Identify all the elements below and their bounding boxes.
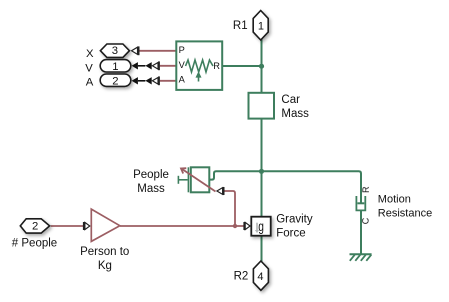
gain Person to Kg (triangle) <box>91 209 120 241</box>
label Gravity Force <box>276 214 313 240</box>
wire People Mass to node B to Motion Resistance <box>210 171 362 203</box>
label A <box>86 77 94 89</box>
converter arrows at port V <box>132 61 159 70</box>
label Car Mass <box>281 94 309 120</box>
PS arrowhead at Gravity Force input <box>244 222 250 230</box>
wire Car Mass to Gravity Force <box>261 119 263 218</box>
PS arrowhead at port X <box>132 46 139 55</box>
Car Mass block <box>249 93 275 119</box>
wire branch node C to People Mass signal port <box>224 191 235 226</box>
port # People (inport 2, hexagon) <box>20 219 49 233</box>
svg-text:4: 4 <box>257 271 263 283</box>
Gravity Force block <box>251 217 270 236</box>
port X (outport 3, hexagon) <box>100 44 129 57</box>
wire sensor P output to port X <box>140 50 177 52</box>
wire R1 to Car Mass (conserving, vertical main line) <box>261 40 263 94</box>
svg-text:2: 2 <box>112 76 118 88</box>
PS arrowhead at gain input <box>84 222 90 230</box>
svg-text:# People: # People <box>12 238 57 250</box>
svg-text:2: 2 <box>32 221 38 233</box>
svg-text:1: 1 <box>258 21 264 33</box>
wire Gravity Force to R2 <box>261 236 263 263</box>
wire # People port to gain input (physical signal) <box>51 225 84 227</box>
node C junction dot (signal branch) <box>233 224 237 228</box>
svg-text:C: C <box>361 217 371 224</box>
svg-text:Person to: Person to <box>80 246 129 258</box>
wire damper to ground <box>360 210 362 254</box>
svg-text:g: g <box>258 219 264 235</box>
converter arrows at port A <box>132 76 159 85</box>
wire gain output to Gravity Force input <box>120 225 244 227</box>
label Person to Kg <box>80 246 129 272</box>
svg-text:Gravity: Gravity <box>276 214 313 226</box>
svg-text:Force: Force <box>276 228 305 240</box>
svg-text:3: 3 <box>112 45 118 57</box>
label V <box>85 62 93 74</box>
label # People <box>12 238 57 250</box>
port V (outport 1, stadium) <box>100 60 131 73</box>
label R1 <box>233 20 248 32</box>
PS arrowhead at People Mass signal port <box>217 187 224 195</box>
label Motion Resistance <box>378 193 432 219</box>
svg-text:R: R <box>361 186 371 193</box>
svg-text:Mass: Mass <box>137 183 165 195</box>
svg-text:X: X <box>86 48 94 60</box>
svg-text:1: 1 <box>112 61 118 73</box>
svg-text:Resistance: Resistance <box>378 207 432 219</box>
svg-text:Car: Car <box>281 94 300 106</box>
port R1 (connection port 1, vertical hexagon) <box>253 11 268 41</box>
svg-text:V: V <box>85 62 93 74</box>
svg-text:Kg: Kg <box>98 260 112 272</box>
ground <box>350 254 372 260</box>
svg-text:V: V <box>179 60 186 70</box>
svg-text:Motion: Motion <box>378 193 411 205</box>
svg-text:People: People <box>133 169 169 181</box>
svg-text:P: P <box>179 45 185 55</box>
wire sensor A output to port A converter <box>160 80 176 82</box>
svg-text:R1: R1 <box>233 20 248 32</box>
svg-text:Mass: Mass <box>281 108 309 120</box>
port R2 (connection port 4, vertical hexagon) <box>253 261 268 290</box>
label People Mass <box>133 169 169 195</box>
svg-text:R: R <box>213 61 220 71</box>
node B junction dot <box>259 169 264 174</box>
svg-text:A: A <box>179 75 186 85</box>
svg-text:A: A <box>86 77 94 89</box>
label R2 <box>234 270 249 282</box>
svg-text:R2: R2 <box>234 270 249 282</box>
People Mass block (variable mass) <box>178 167 215 192</box>
damper Motion Resistance <box>356 186 370 224</box>
wire sensor V output to port V converter <box>160 65 176 67</box>
wire sensor R port to node A <box>222 65 262 67</box>
label X <box>86 48 94 60</box>
port A (outport 2, stadium) <box>100 74 131 88</box>
motion sensor block U1 (P V A R) <box>176 41 222 90</box>
node A junction dot <box>259 64 264 69</box>
